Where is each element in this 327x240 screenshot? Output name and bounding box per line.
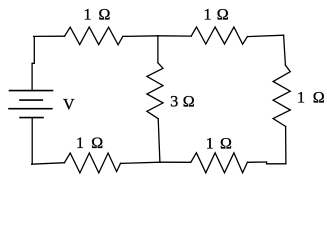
svg-text:1: 1 (204, 7, 212, 24)
svg-text:1: 1 (84, 7, 92, 24)
battery plate: short (-) bottom (20, 117, 43, 119)
label: 1 Ω value of R6 (297, 90, 325, 107)
wire: middle branch lower (R3 to node B) (158, 119, 160, 163)
label: 1 Ω value of R1 (84, 7, 111, 24)
svg-text:Ω: Ω (91, 135, 103, 152)
svg-text:Ω: Ω (183, 93, 195, 110)
svg-text:1: 1 (297, 90, 305, 107)
label: 1 Ω value of R5 (206, 135, 232, 152)
wire: bottom rail right jog segment (267, 162, 286, 164)
wire: top-left vertical (battery + to top-left corner) (32, 37, 34, 91)
resistor R4 1 Ω (bottom-left, horizontal) (64, 153, 120, 173)
svg-text:V: V (63, 96, 75, 113)
svg-text:Ω: Ω (220, 135, 232, 152)
resistor R3 3 Ω (middle, vertical) (147, 63, 163, 119)
node T: top junction of middle branch (157, 35, 159, 37)
svg-text:1: 1 (76, 135, 84, 152)
svg-text:Ω: Ω (99, 7, 111, 24)
label: 1 Ω value of R2 (204, 7, 229, 24)
svg-text:1: 1 (206, 135, 214, 152)
svg-text:Ω: Ω (217, 7, 229, 24)
label: 3 Ω value of R3 (170, 93, 195, 110)
resistor R6 1 Ω (right side, vertical) (273, 65, 290, 126)
battery plate: long (+) top (10, 90, 53, 92)
wire: bottom-left vertical (battery - to bottom-left corner) (31, 118, 34, 165)
svg-text:Ω: Ω (313, 90, 325, 107)
resistor R2 1 Ω (top-right, horizontal) (191, 27, 247, 44)
wire: middle branch upper (node T to R3) (157, 36, 159, 63)
wire: top rail left segment (34, 35, 65, 37)
wire: bottom rail segment (R4 to node B) (121, 162, 160, 163)
resistor R1 1 Ω (top-left, horizontal) (65, 27, 123, 45)
resistor R5 1 Ω (bottom-right, horizontal) (191, 153, 248, 173)
wire: bottom rail left segment (corner to R4) (32, 163, 65, 165)
wire: right vertical upper (corner to R6) (284, 35, 286, 65)
wire: top rail right segment (R2 to top-right corner) (247, 35, 283, 36)
node B: bottom junction of middle branch (159, 161, 161, 163)
svg-text:3: 3 (170, 93, 178, 110)
battery plate: long (+) (9, 108, 52, 110)
wire: top rail segment (node T to R2) (158, 35, 191, 37)
battery plate: short (-) (20, 99, 42, 101)
wire: right vertical lower (R6 to bottom-right corner) (285, 126, 287, 163)
label: 1 Ω value of R4 (76, 135, 103, 152)
wire: bottom rail segment (R5 to jog) (247, 161, 266, 163)
battery V (two-cell voltage source) (9, 91, 53, 118)
wire: top rail middle segment (R1 to node T) (123, 35, 158, 38)
wire: bottom rail segment (node B to R5) (160, 161, 191, 163)
